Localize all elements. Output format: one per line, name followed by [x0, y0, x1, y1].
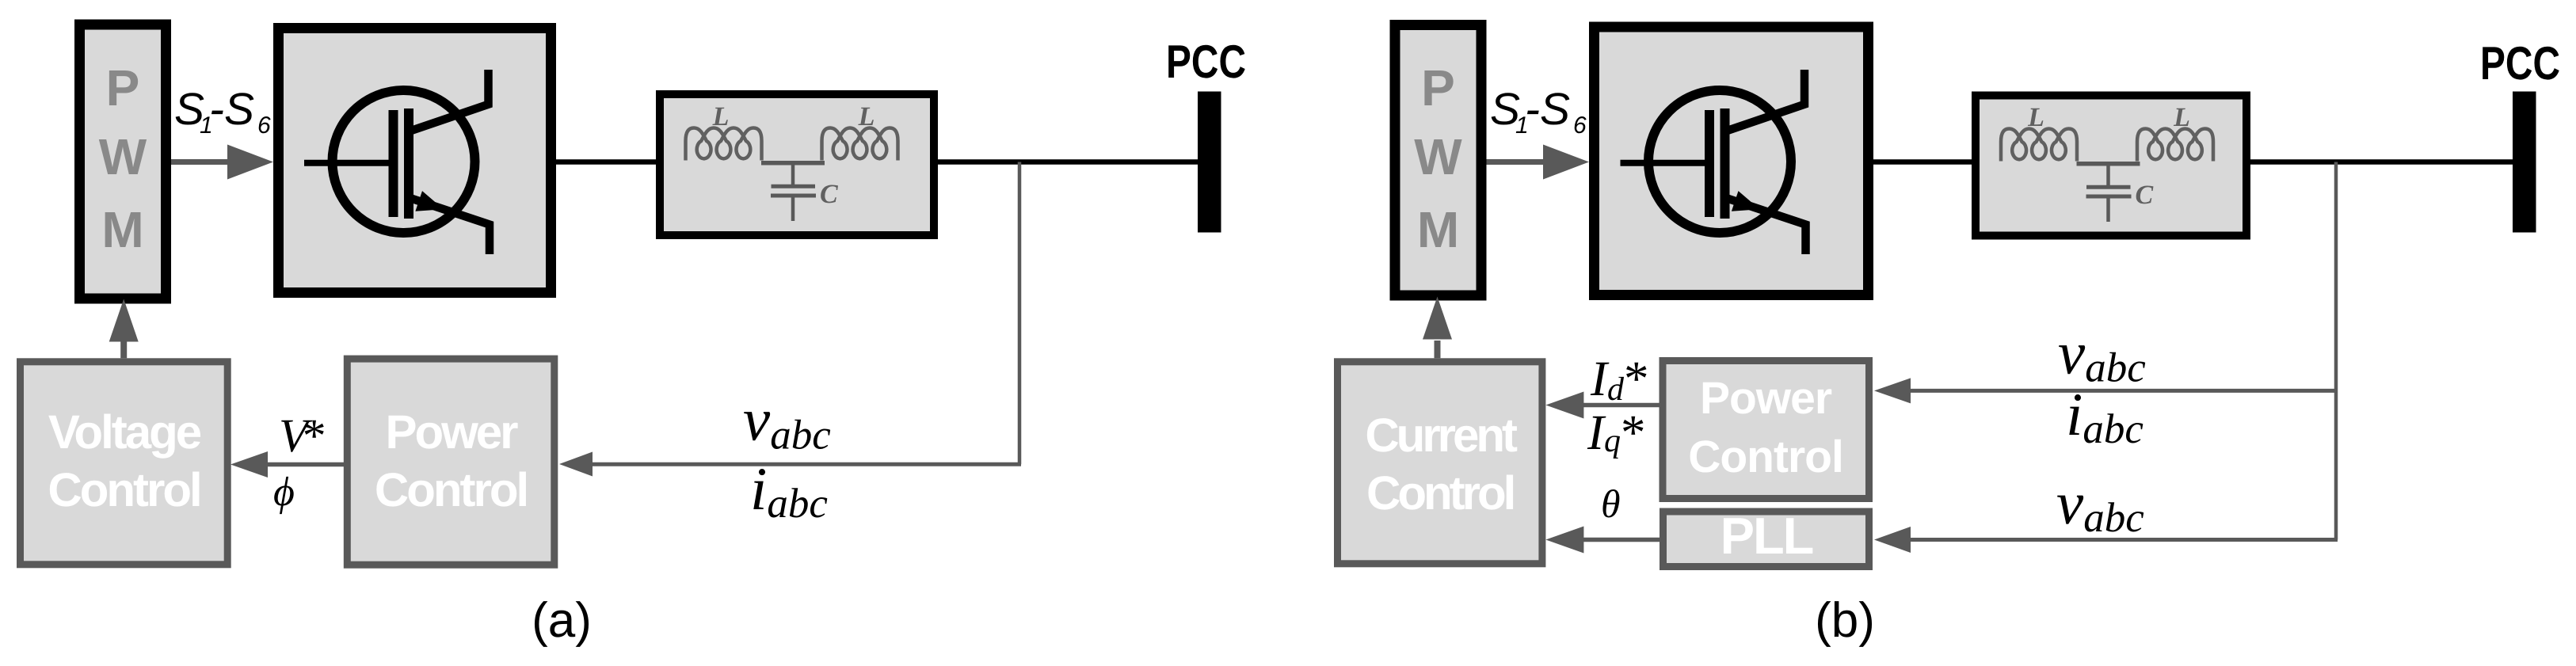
inverter block (a) — [279, 29, 551, 293]
wire inverter to LC filter (a) — [556, 159, 656, 165]
arrowhead into voltage control (a) — [231, 451, 268, 478]
PWM block (b) label — [1414, 59, 1462, 258]
power control label (a) — [375, 405, 527, 516]
arrowhead into power control (b) — [1874, 378, 1911, 403]
arrowhead Id Iq into current control (b) — [1545, 392, 1583, 419]
power control block (a) — [347, 359, 554, 565]
svg-text:L: L — [712, 102, 730, 131]
arrowhead into PWM (a) — [109, 299, 139, 342]
PWM block (a) label — [99, 59, 147, 258]
wire power control to voltage control (a) — [266, 462, 344, 467]
IGBT symbol Q2 (b) — [1621, 70, 1806, 254]
svg-text:6: 6 — [257, 112, 271, 139]
PCC bus bar (a) — [1198, 92, 1221, 233]
svg-text:P: P — [1421, 59, 1455, 116]
node tap wire from bus (b) — [2334, 162, 2338, 540]
svg-text:C: C — [820, 180, 838, 209]
svg-text:(b): (b) — [1815, 593, 1875, 648]
power control block (b) — [1663, 361, 1869, 499]
inverter block (b) — [1595, 27, 1869, 295]
current control label (b) — [1365, 409, 1518, 519]
svg-text:W: W — [99, 128, 147, 185]
signal label S1-S6 (a) — [174, 84, 271, 139]
feedback wire vabc iabc (a) — [590, 462, 1021, 466]
wire PWM to inverter (b) — [1487, 159, 1545, 165]
inductor L4 (b) — [2137, 129, 2213, 162]
arrowhead into PLL (b) — [1874, 527, 1911, 553]
power control label (b) — [1688, 373, 1843, 482]
arrowhead into inverter (a) — [227, 145, 273, 180]
LC filter block (a) — [660, 94, 934, 235]
inductor L2 (a) — [822, 128, 898, 161]
wire current control to PWM (b) — [1435, 341, 1441, 358]
inductor L3 (b) — [2001, 129, 2077, 162]
svg-text:L: L — [2027, 103, 2044, 132]
svg-text:-S: -S — [209, 84, 254, 135]
wire voltage control to PWM (a) — [120, 341, 127, 358]
voltage control block (a) — [21, 362, 228, 565]
arrowhead into inverter (b) — [1543, 145, 1589, 180]
voltage control label (a) — [48, 405, 200, 516]
svg-text:PLL: PLL — [1721, 507, 1813, 565]
junction wire between inductors (b) — [2077, 162, 2140, 166]
svg-text:Current: Current — [1365, 409, 1518, 462]
svg-text:P: P — [106, 59, 140, 116]
capacitor C1 (a) — [771, 163, 816, 221]
wire power control to current control (b) — [1582, 403, 1661, 408]
svg-text:θ: θ — [1601, 481, 1621, 526]
wire LC filter to PCC (a) — [938, 159, 1198, 165]
svg-text:PCC: PCC — [1166, 36, 1246, 88]
feedback wire vabc to PLL (b) — [1911, 538, 2338, 542]
svg-text:L: L — [858, 102, 875, 131]
svg-text:PCC: PCC — [2480, 37, 2560, 89]
PWM block (a) — [80, 25, 166, 299]
svg-text:Iq*: Iq* — [1587, 405, 1645, 460]
wire PLL to current control (b) — [1582, 538, 1660, 542]
LC filter block (b) — [1976, 96, 2246, 236]
svg-text:(a): (a) — [532, 593, 592, 648]
svg-text:vabc: vabc — [743, 386, 831, 459]
svg-text:-S: -S — [1525, 84, 1570, 135]
svg-text:Power: Power — [385, 405, 518, 459]
svg-text:C: C — [2136, 181, 2154, 210]
svg-text:vabc: vabc — [2056, 469, 2144, 541]
svg-text:L: L — [2173, 103, 2190, 132]
signal label S1-S6 (b) — [1490, 84, 1587, 139]
inductor L1 (a) — [686, 128, 762, 161]
arrowhead into PWM (b) — [1423, 297, 1452, 340]
wire LC filter to PCC (b) — [2250, 159, 2513, 165]
node tap wire from bus (a) — [1018, 162, 1022, 465]
feedback wire vabc iabc (b) — [1905, 389, 2338, 393]
wire inverter to LC filter (b) — [1873, 159, 1972, 165]
svg-text:Voltage: Voltage — [48, 405, 201, 459]
svg-text:Power: Power — [1700, 373, 1832, 424]
PLL block (b) — [1663, 512, 1869, 567]
arrowhead into power control (a) — [559, 452, 593, 477]
PCC bus bar (b) — [2513, 92, 2536, 233]
current control block (b) — [1338, 362, 1542, 564]
svg-text:Control: Control — [1688, 432, 1843, 482]
svg-text:V*: V* — [279, 409, 325, 462]
svg-text:Id*: Id* — [1590, 351, 1648, 408]
svg-text:Control: Control — [375, 463, 527, 516]
svg-text:Control: Control — [48, 463, 200, 516]
svg-text:M: M — [1417, 201, 1459, 258]
IGBT symbol Q1 (a) — [304, 70, 490, 254]
arrowhead theta into current control (b) — [1545, 527, 1583, 554]
PWM block (b) — [1395, 25, 1481, 296]
svg-text:ϕ: ϕ — [273, 470, 295, 515]
svg-text:6: 6 — [1573, 112, 1587, 139]
capacitor C2 (b) — [2086, 164, 2132, 222]
svg-text:W: W — [1414, 128, 1462, 185]
svg-text:Control: Control — [1366, 466, 1514, 519]
junction wire between inductors (a) — [761, 161, 825, 166]
svg-text:M: M — [101, 201, 143, 258]
wire PWM to inverter (a) — [171, 159, 230, 165]
